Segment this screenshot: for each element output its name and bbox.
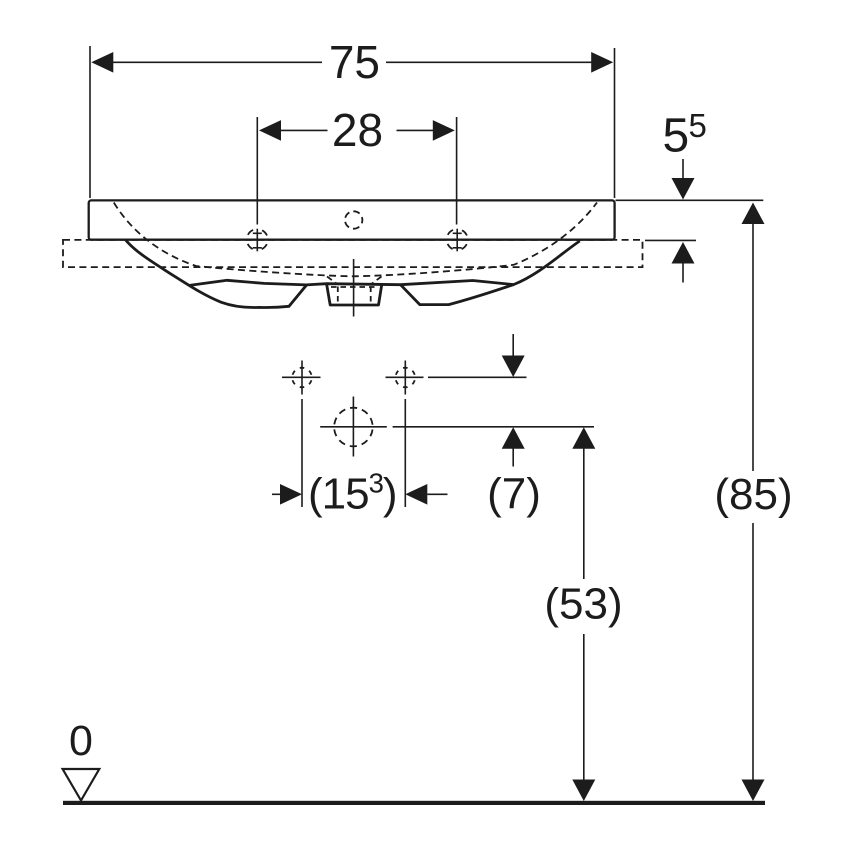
svg-text:75: 75 [329,36,380,88]
svg-text:(7): (7) [487,470,541,519]
fixing hole level dimension line [428,376,527,378]
inner bowl hidden contour dashed [114,203,597,277]
drain outlet crosshair vertical [352,397,354,457]
svg-text:28: 28 [332,104,383,156]
dimension (53) down arrow [572,780,595,802]
overflow hole dashed circle [345,211,362,228]
rail top extension line to the right [616,199,764,201]
dimension (85) down arrow [742,780,765,802]
fixing hole right circle [396,368,416,388]
dimension (53) vertical line upper [583,448,585,579]
bowl outer curve right with right pocket [401,241,580,305]
dimension (53) up arrow [572,427,595,449]
floor baseline [63,801,765,805]
tap hole right tick top [453,232,462,234]
datum triangle [63,769,100,801]
tap hole right centerline vertical [456,229,458,252]
dimension (15-3) left arrow tail [272,493,281,495]
trap box hidden vertical left [337,287,339,304]
tap hole left tick top [253,232,262,234]
dimension 28 arrow left [259,120,281,141]
trap hidden diagonal right [372,277,382,284]
dimension (85) vertical line upper [752,224,754,472]
washbasin hidden ledge dashed rectangle [63,240,643,267]
rail bottom extension line short right [645,239,696,241]
fixing hole right crosshair horizontal [386,376,424,378]
tap hole right circle [447,229,468,250]
dimension 75 extension line left [89,46,91,198]
tap hole left circle [247,229,268,250]
tap hole left tick bottom [253,247,262,249]
tap hole left centerline vertical [256,229,258,252]
dimension 5-5 down arrow [672,178,695,200]
svg-text:0: 0 [69,717,93,765]
dimension 5-5 up arrow tail [682,263,684,283]
dimension (15-3) right arrow tail [427,493,447,495]
drain level dimension line [320,426,387,428]
dimension (15-3) extension line right [404,399,406,507]
dimension 5-5 up arrow [672,242,695,264]
fixing hole right crosshair vertical [404,361,406,395]
trap box hidden vertical right [370,287,372,304]
dimension (85) up arrow [742,203,765,225]
dimension 28 arrow right [433,120,455,141]
drain outlet circle [334,408,373,447]
dimension (53) vertical line lower [583,634,585,780]
drain centerline [353,259,355,317]
dimension 5-5 down arrow tail [682,159,684,178]
dimension (15-3) right arrow [405,484,427,505]
dimension 75 line right segment [386,61,594,63]
trap box hidden horizontal [331,286,378,288]
dimension (15-3) extension line left [301,399,303,507]
dimension 28 line left segment [280,129,328,131]
svg-text:5: 5 [689,107,707,144]
dimension (15-3) left arrow [280,484,302,505]
basin underside edge [189,280,513,285]
dimension 28 extension line right [456,117,458,225]
fixing hole left circle [292,368,312,388]
fixing hole left crosshair horizontal [282,376,321,378]
tap hole right tick bottom [453,247,462,249]
dimension (85) vertical line lower [752,523,754,780]
bowl outer curve left [126,240,307,307]
dimension (7) up arrow tail [512,448,514,466]
dimension 75 line left segment [110,61,322,63]
dimension 75 extension line right [614,48,616,198]
fixing hole left crosshair vertical [301,361,303,395]
drain trap box [327,284,382,305]
dimension 28 extension line left [256,117,258,225]
washbasin rail outline [89,200,615,239]
trap hidden diagonal left [327,277,337,284]
dimension (7) up arrow [502,427,525,449]
svg-text:(53): (53) [544,580,622,629]
svg-text:(85): (85) [714,470,792,519]
dimension 28 line right segment [397,129,435,131]
svg-text:5: 5 [663,110,690,163]
dimension (7) down arrow [502,356,525,378]
svg-text:(153): (153) [308,468,397,519]
dimension 75 arrow right [591,52,613,73]
dimension 75 arrow left [91,52,113,73]
dimension (7) down arrow tail [512,334,514,357]
